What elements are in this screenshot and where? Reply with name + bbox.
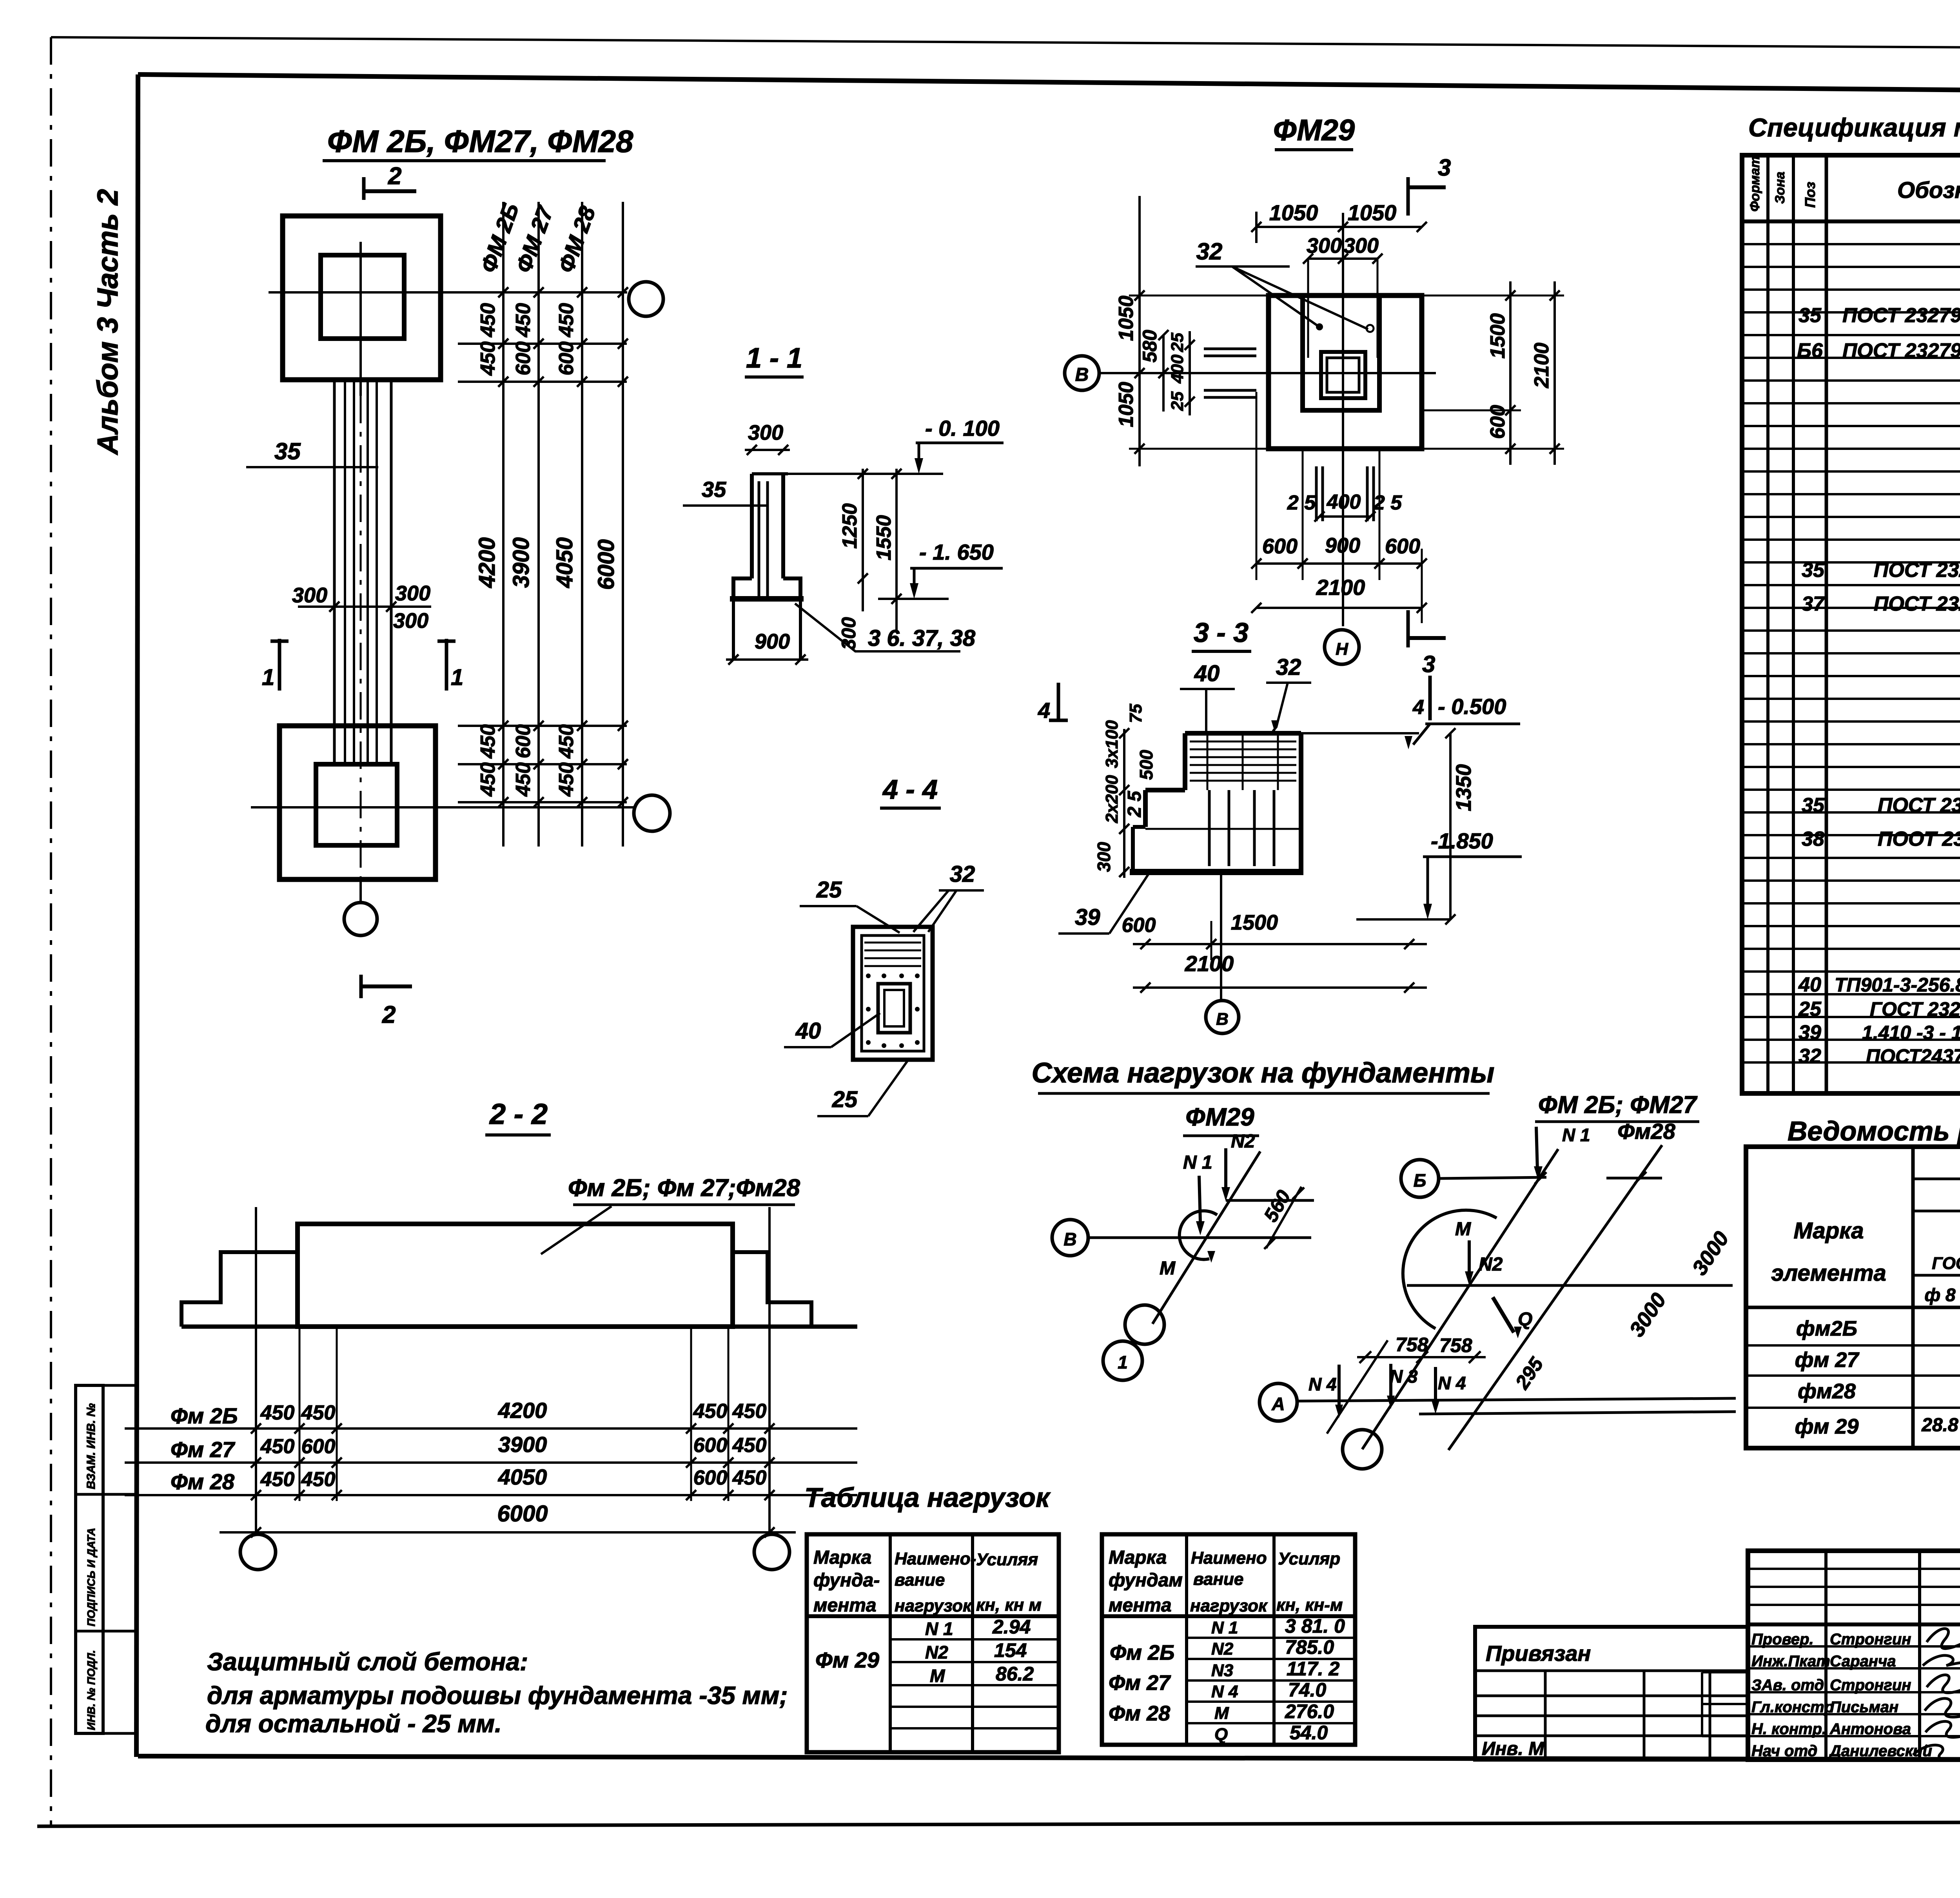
incline axis 2 xyxy=(1448,1145,1662,1450)
svg-text:450: 450 xyxy=(555,724,578,759)
svg-text:450: 450 xyxy=(693,1400,728,1423)
title block left grid xyxy=(1824,1551,1828,1760)
svg-text:Фм 29: Фм 29 xyxy=(815,1648,879,1672)
drawing frame left xyxy=(136,74,138,1757)
svg-text:Формат: Формат xyxy=(1748,156,1762,212)
svg-text:Фм 2Б; Фм 27;Фм28: Фм 2Б; Фм 27;Фм28 xyxy=(568,1175,800,1202)
svg-text:фм28: фм28 xyxy=(1798,1380,1856,1403)
svg-text:ВЗАМ. ИНВ. №: ВЗАМ. ИНВ. № xyxy=(85,1403,98,1489)
svg-text:вание: вание xyxy=(1193,1570,1243,1589)
svg-text:нагрузок: нагрузок xyxy=(895,1596,973,1615)
privyazan box xyxy=(1475,1627,1748,1760)
svg-text:32: 32 xyxy=(950,861,975,887)
plan horizontal centerline lower xyxy=(251,806,635,809)
spec row grid xyxy=(1742,243,1960,245)
svg-text:для остальной - 25 мм.: для остальной - 25 мм. xyxy=(205,1709,502,1738)
svg-text:ПООТ 23279 - 85: ПООТ 23279 - 85 xyxy=(1878,828,1960,850)
svg-text:1050: 1050 xyxy=(1115,382,1138,427)
1-1 pit below xyxy=(732,601,735,660)
svg-text:900: 900 xyxy=(1325,534,1360,557)
section mark 3 top xyxy=(1406,177,1410,216)
svg-text:ПОСТ 23279 - 85: ПОСТ 23279 - 85 xyxy=(1842,304,1960,327)
svg-text:Ведомость расхода стали на од: Ведомость расхода стали на один элемент,… xyxy=(1788,1116,1960,1146)
svg-text:2x200: 2x200 xyxy=(1102,775,1122,823)
svg-text:Б6: Б6 xyxy=(1797,339,1823,362)
svg-text:4050: 4050 xyxy=(552,537,577,588)
small boxes left of title block xyxy=(1701,1672,1703,1736)
svg-text:Саранча: Саранча xyxy=(1830,1653,1896,1670)
dim tie lines lower xyxy=(458,725,627,727)
svg-text:-1.850: -1.850 xyxy=(1431,828,1493,853)
svg-text:Гл.констр: Гл.констр xyxy=(1751,1699,1834,1716)
svg-text:2 5: 2 5 xyxy=(1124,790,1145,818)
svg-text:1350: 1350 xyxy=(1452,764,1475,811)
svg-text:Марка: Марка xyxy=(813,1547,871,1568)
svg-text:ф 8: ф 8 xyxy=(1924,1285,1955,1305)
svg-text:Спецификация монолитных фундам: Спецификация монолитных фундаментов Фм 2… xyxy=(1748,113,1960,142)
svg-text:ФМ 2Б; ФМ27: ФМ 2Б; ФМ27 xyxy=(1538,1091,1698,1118)
svg-text:3x100: 3x100 xyxy=(1102,720,1122,768)
FM29 rebar tick pairs xyxy=(1204,348,1256,350)
svg-text:580: 580 xyxy=(1139,330,1161,363)
stamp bottom tie xyxy=(76,1732,138,1735)
svg-text:300: 300 xyxy=(393,609,428,633)
svg-text:3 81. 0: 3 81. 0 xyxy=(1285,1615,1345,1637)
svg-text:А: А xyxy=(1271,1394,1285,1414)
steel row izdeliya bottom xyxy=(1913,1178,1960,1180)
svg-text:нагрузок: нагрузок xyxy=(1190,1596,1268,1615)
title block outer xyxy=(1748,1551,1960,1760)
svg-text:Б: Б xyxy=(1414,1170,1426,1191)
axis circle bottom xyxy=(344,903,377,935)
svg-text:кн, кн м: кн, кн м xyxy=(976,1595,1042,1615)
svg-text:Н. контр.: Н. контр. xyxy=(1751,1720,1826,1738)
svg-text:6000: 6000 xyxy=(497,1501,548,1526)
svg-text:- 0.500: - 0.500 xyxy=(1438,694,1506,719)
svg-text:N 3: N 3 xyxy=(1390,1366,1418,1387)
svg-text:4050: 4050 xyxy=(498,1465,547,1489)
svg-text:300: 300 xyxy=(1343,234,1379,257)
svg-text:ФМ 2Б, ФМ27, ФМ28: ФМ 2Б, ФМ27, ФМ28 xyxy=(327,124,633,159)
svg-text:Наимено: Наимено xyxy=(1191,1548,1267,1568)
svg-text:Фм 28: Фм 28 xyxy=(171,1469,235,1494)
svg-text:ФМ29: ФМ29 xyxy=(1273,114,1355,147)
svg-text:N 4: N 4 xyxy=(1308,1374,1337,1394)
spec header bottom xyxy=(1742,219,1960,223)
grid circle 1 xyxy=(1103,1341,1142,1380)
svg-text:N2: N2 xyxy=(925,1642,948,1662)
svg-text:450: 450 xyxy=(477,303,499,337)
steel col marka right xyxy=(1911,1147,1915,1448)
svg-text:ГОСТ 5781- 82: ГОСТ 5781- 82 xyxy=(1932,1254,1960,1273)
svg-text:35: 35 xyxy=(702,477,726,502)
svg-text:600: 600 xyxy=(555,341,578,375)
left load table xyxy=(807,1534,1059,1752)
svg-text:В: В xyxy=(1063,1229,1076,1249)
svg-text:мента: мента xyxy=(1109,1595,1172,1616)
svg-text:400: 400 xyxy=(1168,354,1187,384)
svg-text:600: 600 xyxy=(512,724,535,758)
steel row gost bottom xyxy=(1913,1274,1960,1277)
svg-text:450: 450 xyxy=(260,1468,295,1491)
svg-text:Фм28: Фм28 xyxy=(1617,1119,1675,1144)
svg-text:35: 35 xyxy=(1802,559,1825,582)
1-1 dim line 900 xyxy=(726,658,808,661)
svg-text:35: 35 xyxy=(274,438,301,464)
svg-text:ПОСТ 23279 - 85: ПОСТ 23279 - 85 xyxy=(1878,794,1960,817)
svg-text:32: 32 xyxy=(1798,1045,1821,1068)
svg-text:600: 600 xyxy=(693,1434,728,1457)
section mark 2 bottom xyxy=(359,975,363,998)
svg-text:ФМ29: ФМ29 xyxy=(1185,1103,1254,1131)
svg-text:39: 39 xyxy=(1798,1021,1821,1044)
svg-text:39: 39 xyxy=(1075,905,1100,930)
svg-text:Фм 27: Фм 27 xyxy=(1109,1671,1171,1695)
4-4 column core inner xyxy=(884,990,904,1026)
sketch top tie line xyxy=(1226,1199,1314,1202)
svg-text:Фм 27: Фм 27 xyxy=(171,1437,236,1462)
svg-text:450: 450 xyxy=(555,762,578,797)
svg-text:2: 2 xyxy=(388,163,401,190)
svg-text:25: 25 xyxy=(1798,998,1822,1021)
svg-text:N2: N2 xyxy=(1231,1131,1255,1152)
right dimension verticals FM26/27/28 xyxy=(502,202,505,847)
2-2 extension verticals xyxy=(299,1329,301,1501)
svg-text:1550: 1550 xyxy=(873,515,895,560)
moment M arc right xyxy=(1403,1210,1497,1329)
upper column outline xyxy=(321,255,404,339)
svg-text:- 0. 100: - 0. 100 xyxy=(925,416,1000,441)
svg-text:25: 25 xyxy=(832,1087,858,1112)
axis circles bottom left sketch xyxy=(1125,1305,1164,1344)
2-2 base line xyxy=(181,1325,857,1329)
svg-text:Зона: Зона xyxy=(1773,172,1788,204)
grid circle V sketch xyxy=(1052,1220,1088,1256)
svg-text:600: 600 xyxy=(1385,535,1420,558)
FM29 horizontal centerline xyxy=(1099,372,1436,374)
svg-text:В: В xyxy=(1216,1010,1229,1029)
svg-text:40: 40 xyxy=(1798,973,1821,996)
svg-text:4: 4 xyxy=(1412,696,1424,719)
svg-text:ПОСТ24379.1 - 80: ПОСТ24379.1 - 80 xyxy=(1866,1045,1960,1067)
svg-text:1250: 1250 xyxy=(838,503,861,549)
stamp top tie xyxy=(103,1384,138,1387)
svg-text:кн, кн-м: кн, кн-м xyxy=(1276,1595,1343,1615)
svg-text:450: 450 xyxy=(477,341,499,376)
svg-text:N 1: N 1 xyxy=(1211,1618,1238,1637)
3-3 right dim 1350 xyxy=(1449,733,1452,919)
svg-text:для арматуры подошвы фундамент: для арматуры подошвы фундамента -35 мм; xyxy=(207,1681,788,1709)
svg-text:1050: 1050 xyxy=(1269,200,1318,225)
svg-text:Н: Н xyxy=(1336,640,1348,659)
svg-text:25: 25 xyxy=(1168,333,1187,352)
svg-text:40: 40 xyxy=(1194,661,1220,686)
svg-text:450: 450 xyxy=(732,1434,767,1457)
axis circle 2-2 left xyxy=(240,1534,276,1570)
svg-text:38: 38 xyxy=(1802,828,1824,850)
svg-text:М: М xyxy=(930,1666,946,1686)
svg-text:300: 300 xyxy=(292,584,327,607)
4-4 outer box xyxy=(853,927,933,1060)
svg-text:28.8: 28.8 xyxy=(1921,1415,1958,1436)
svg-text:3900: 3900 xyxy=(508,537,534,588)
plain circle bottom right sketch xyxy=(1343,1430,1382,1469)
svg-text:4: 4 xyxy=(1038,698,1050,723)
svg-text:2 - 2: 2 - 2 xyxy=(489,1098,548,1130)
upper footing outline xyxy=(283,216,441,380)
svg-text:154: 154 xyxy=(994,1639,1027,1661)
svg-text:М: М xyxy=(1455,1219,1471,1240)
svg-text:3 - 3: 3 - 3 xyxy=(1194,617,1249,648)
svg-text:300: 300 xyxy=(1094,842,1114,872)
svg-text:Усиляр: Усиляр xyxy=(1278,1549,1340,1568)
grid circle A sketch xyxy=(1259,1383,1297,1421)
svg-text:Письман: Письман xyxy=(1830,1699,1898,1716)
svg-text:2: 2 xyxy=(382,1001,396,1028)
svg-text:1500: 1500 xyxy=(1231,911,1278,934)
2-2 beam outline xyxy=(298,1224,733,1327)
svg-text:В: В xyxy=(1075,364,1089,385)
svg-text:Стронгин: Стронгин xyxy=(1830,1677,1911,1694)
grid circle N (II) xyxy=(1325,630,1359,664)
svg-text:25: 25 xyxy=(816,877,842,903)
svg-text:2100: 2100 xyxy=(1185,951,1234,976)
svg-text:450: 450 xyxy=(512,762,535,797)
short incline left xyxy=(1327,1340,1388,1434)
svg-text:элемента: элемента xyxy=(1771,1260,1886,1286)
svg-text:Наимено-: Наимено- xyxy=(895,1549,976,1568)
svg-text:600: 600 xyxy=(693,1467,728,1489)
FM29 vertical centerline xyxy=(1342,213,1344,626)
svg-text:Схема нагрузок на фундаменты: Схема нагрузок на фундаменты xyxy=(1032,1057,1495,1089)
svg-text:600: 600 xyxy=(1122,914,1156,937)
svg-text:450: 450 xyxy=(260,1401,295,1424)
svg-text:300: 300 xyxy=(395,582,430,605)
svg-text:мента: мента xyxy=(813,1595,877,1616)
svg-text:600: 600 xyxy=(512,341,535,375)
svg-text:35: 35 xyxy=(1802,794,1825,817)
drawing frame top xyxy=(138,74,1960,95)
4-4 column core outer xyxy=(878,984,910,1033)
svg-text:32: 32 xyxy=(1196,238,1223,265)
svg-text:Инв. М: Инв. М xyxy=(1482,1738,1544,1759)
3-3 mesh hatch xyxy=(1190,741,1296,743)
svg-text:117. 2: 117. 2 xyxy=(1287,1658,1339,1680)
steel row class bottom xyxy=(1913,1210,1960,1213)
2-2 axis lines xyxy=(255,1207,257,1535)
title block main split xyxy=(1748,1622,1960,1626)
3-3 body outline xyxy=(1185,731,1301,736)
pedestal strip walls xyxy=(333,380,336,764)
svg-text:ГОСТ 23279- 85: ГОСТ 23279- 85 xyxy=(1870,998,1960,1020)
FM29 anchor box outer xyxy=(1321,352,1365,398)
svg-text:600: 600 xyxy=(1262,535,1298,558)
svg-text:вание: вание xyxy=(895,1570,945,1590)
svg-text:2100: 2100 xyxy=(1316,575,1365,600)
svg-text:450: 450 xyxy=(301,1468,336,1491)
svg-text:35: 35 xyxy=(1798,304,1822,327)
FM29 left dims xyxy=(1138,196,1141,466)
axis circle lower right xyxy=(634,795,670,831)
steel table frame xyxy=(1746,1147,1960,1448)
svg-text:фм2Б: фм2Б xyxy=(1796,1317,1857,1340)
svg-text:N 1: N 1 xyxy=(1183,1152,1212,1173)
axis circle top right xyxy=(629,282,663,316)
mid horizontal line xyxy=(1407,1284,1733,1287)
3-3 bottom slab thick xyxy=(1130,869,1303,875)
svg-text:N 1: N 1 xyxy=(1562,1125,1590,1145)
grid circle V xyxy=(1065,356,1099,390)
plan vertical centerline upper xyxy=(359,242,362,396)
svg-text:Провер.: Провер. xyxy=(1751,1631,1814,1648)
4-4 inner box xyxy=(862,935,924,1051)
2-2 left step profile xyxy=(181,1252,298,1327)
svg-text:1 - 1: 1 - 1 xyxy=(746,343,802,374)
spec table frame xyxy=(1742,155,1960,1093)
FM29 footing square xyxy=(1269,295,1422,449)
svg-text:450: 450 xyxy=(732,1400,767,1423)
svg-text:600: 600 xyxy=(1486,405,1509,439)
svg-text:фм 29: фм 29 xyxy=(1795,1415,1859,1438)
N1 arrow right sketch xyxy=(1536,1127,1537,1170)
svg-text:N 4: N 4 xyxy=(1211,1682,1238,1701)
svg-text:1: 1 xyxy=(451,665,463,690)
svg-text:276.0: 276.0 xyxy=(1285,1700,1334,1722)
svg-text:450: 450 xyxy=(477,762,499,797)
1-1 footing step xyxy=(733,578,752,596)
section marks 1-1 xyxy=(278,639,281,691)
svg-text:2100: 2100 xyxy=(1530,343,1553,388)
svg-text:1: 1 xyxy=(262,665,274,690)
left stamp column box xyxy=(76,1385,103,1733)
signatures squiggles xyxy=(1927,1629,1960,1649)
svg-text:450: 450 xyxy=(260,1435,295,1458)
lower footing outline xyxy=(279,726,436,879)
FM29 right dims 1500 2100 600 xyxy=(1509,281,1512,465)
svg-text:Привязан: Привязан xyxy=(1486,1641,1591,1666)
svg-text:450: 450 xyxy=(512,303,535,337)
dim tie lines upper xyxy=(458,343,627,345)
2-2 right step profile xyxy=(733,1252,811,1327)
svg-text:500: 500 xyxy=(1136,750,1156,780)
lower column outline xyxy=(316,764,397,845)
FM29 anchor box inner xyxy=(1327,358,1359,392)
signature rows xyxy=(1748,1645,1960,1648)
svg-text:1.410 -3 - 12: 1.410 -3 - 12 xyxy=(1862,1022,1960,1044)
svg-text:300: 300 xyxy=(748,421,783,444)
strip center dashline xyxy=(360,396,362,901)
section mark 3 bottom xyxy=(1406,610,1410,647)
svg-text:25: 25 xyxy=(1168,392,1187,411)
drawing frame bottom xyxy=(138,1756,1960,1760)
svg-text:Альбом 3 Часть 2: Альбом 3 Часть 2 xyxy=(91,189,124,455)
svg-text:- 1. 650: - 1. 650 xyxy=(919,540,994,564)
svg-text:ТП901-3-256.89- КЖ.И85.0.0.0: ТП901-3-256.89- КЖ.И85.0.0.0 xyxy=(1835,974,1960,996)
svg-text:450: 450 xyxy=(732,1467,767,1489)
svg-text:фундам: фундам xyxy=(1109,1570,1183,1591)
svg-text:450: 450 xyxy=(555,303,578,337)
svg-text:900: 900 xyxy=(755,630,790,653)
svg-text:74.0: 74.0 xyxy=(1288,1679,1327,1701)
svg-text:ПОСТ 23279- 85: ПОСТ 23279- 85 xyxy=(1874,593,1960,615)
V axis line xyxy=(1088,1236,1311,1239)
svg-text:Фм 28: Фм 28 xyxy=(1109,1702,1170,1725)
svg-text:2 5: 2 5 xyxy=(1373,491,1402,514)
1-1 column xyxy=(750,474,754,578)
svg-text:Марка: Марка xyxy=(1109,1547,1167,1568)
svg-text:1500: 1500 xyxy=(1486,313,1509,359)
svg-text:3 6. 37, 38: 3 6. 37, 38 xyxy=(868,625,976,651)
steel header bottom xyxy=(1746,1306,1960,1309)
1-1 rebar lines xyxy=(758,481,760,597)
svg-text:4200: 4200 xyxy=(474,537,500,588)
svg-text:Поз: Поз xyxy=(1802,182,1818,208)
svg-text:Защитный слой бетона:: Защитный слой бетона: xyxy=(207,1648,528,1676)
svg-text:N2: N2 xyxy=(1211,1639,1234,1659)
svg-text:Таблица нагрузок: Таблица нагрузок xyxy=(804,1482,1051,1513)
right load table xyxy=(1102,1534,1355,1745)
dim 758 758 xyxy=(1357,1356,1486,1358)
svg-text:Q: Q xyxy=(1214,1725,1228,1744)
section mark 2 top xyxy=(362,177,366,200)
svg-text:Инж.Пкат: Инж.Пкат xyxy=(1751,1653,1830,1670)
4-4 mesh xyxy=(864,942,921,944)
svg-text:3: 3 xyxy=(1422,651,1435,677)
incline axis 1 xyxy=(1362,1149,1558,1449)
svg-text:2 5: 2 5 xyxy=(1287,491,1316,514)
svg-text:450: 450 xyxy=(477,724,499,759)
4-4 rebar dots xyxy=(866,973,871,978)
svg-text:ПОСТ 23279 - 85: ПОСТ 23279 - 85 xyxy=(1842,339,1960,362)
svg-text:ЗАв. отд: ЗАв. отд xyxy=(1751,1677,1824,1694)
1-1 footing slab thick bottom xyxy=(730,596,804,602)
svg-text:Обозначение: Обозначение xyxy=(1897,178,1960,203)
svg-text:400: 400 xyxy=(1327,491,1361,513)
page bottom line xyxy=(37,1821,1960,1826)
svg-text:75: 75 xyxy=(1126,704,1145,723)
svg-text:450: 450 xyxy=(301,1401,336,1424)
svg-text:N2: N2 xyxy=(1479,1254,1503,1275)
svg-text:Нач отд: Нач отд xyxy=(1751,1742,1817,1760)
svg-text:ПОСТ 23279- 85: ПОСТ 23279- 85 xyxy=(1874,559,1960,582)
3-3 anchor bolt verticals xyxy=(1208,790,1211,866)
page edge left line xyxy=(50,37,52,1826)
svg-text:Усиляя: Усиляя xyxy=(976,1550,1038,1569)
axis circle 2-2 right xyxy=(754,1534,789,1570)
svg-text:758: 758 xyxy=(1439,1334,1472,1356)
svg-text:N3: N3 xyxy=(1211,1661,1233,1680)
svg-text:600: 600 xyxy=(301,1435,336,1458)
svg-text:1: 1 xyxy=(1118,1352,1128,1372)
moment M arc xyxy=(1180,1211,1217,1260)
dim 560 inclined xyxy=(1266,1187,1301,1248)
svg-text:ПОДПИСЬ И ДАТА: ПОДПИСЬ И ДАТА xyxy=(85,1528,97,1626)
svg-text:3: 3 xyxy=(1438,154,1451,181)
svg-text:Антонова: Антонова xyxy=(1829,1720,1911,1738)
FM29 anchor bolts below xyxy=(1315,466,1318,521)
svg-text:фунда-: фунда- xyxy=(813,1570,880,1591)
grid circle B sketch xyxy=(1401,1160,1439,1197)
svg-text:N 4: N 4 xyxy=(1438,1373,1466,1393)
svg-text:Стронгин: Стронгин xyxy=(1830,1631,1911,1648)
svg-text:N 1: N 1 xyxy=(925,1619,953,1639)
svg-text:2.94: 2.94 xyxy=(992,1616,1031,1638)
svg-text:ИНВ. № ПОДЛ.: ИНВ. № ПОДЛ. xyxy=(85,1650,97,1730)
svg-text:1050: 1050 xyxy=(1115,295,1138,341)
svg-text:Фм 2Б: Фм 2Б xyxy=(171,1403,238,1428)
svg-text:758: 758 xyxy=(1396,1334,1428,1356)
svg-text:3900: 3900 xyxy=(498,1432,547,1457)
